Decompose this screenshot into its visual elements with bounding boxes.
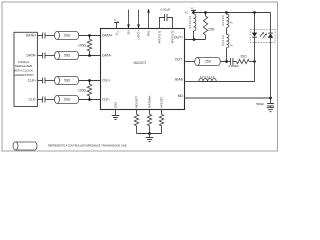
svg-text:20Ω: 20Ω <box>241 55 248 59</box>
IC U1 MAX3273 laser driver <box>101 29 185 110</box>
svg-text:DATA+: DATA+ <box>26 34 37 38</box>
inductor L1 LP ferrite bead at OUT+ <box>185 10 196 39</box>
resistor R3 MODSET set resistor <box>134 110 138 134</box>
wire bead to laser cathode <box>216 81 254 83</box>
capacitor C6 0.068uF damping <box>228 58 239 68</box>
svg-text:25Ω: 25Ω <box>205 60 212 64</box>
wire OUT- to 25ohm line <box>185 61 195 63</box>
node EN input arrow <box>127 10 130 29</box>
transmission line 50ohm row 3 <box>55 77 79 85</box>
photodiode D2 monitor <box>268 33 273 38</box>
svg-text:50Ω: 50Ω <box>64 79 71 83</box>
laser diode package (dashed) <box>250 29 275 42</box>
svg-text:GND: GND <box>114 102 118 108</box>
power VCC supply right <box>191 6 197 12</box>
ground below set resistors <box>146 134 154 142</box>
svg-text:100Ω: 100Ω <box>78 88 87 92</box>
svg-text:CLK-: CLK- <box>28 98 36 102</box>
capacitor C1 series coupling <box>43 33 45 39</box>
node rail junction at bead branch <box>225 11 228 14</box>
wire serializer to coupling cap row 3 <box>37 80 42 82</box>
wire set-resistor common rail <box>137 133 162 135</box>
inductor L4 ferrite bead bias <box>199 76 217 81</box>
capacitor C7 500pF MD bypass <box>256 98 274 106</box>
resistor R7 20ohm damping <box>233 55 255 64</box>
laser diode D1 <box>252 33 257 38</box>
wire laser anode from rail <box>254 13 256 33</box>
svg-text:APCSET: APCSET <box>160 96 164 107</box>
wire 50ohm line to MAX3273 row 1 <box>79 35 101 37</box>
svg-text:OUT+: OUT+ <box>174 36 183 40</box>
svg-text:BIAS: BIAS <box>175 78 183 82</box>
wire between beads <box>226 28 228 35</box>
svg-text:EN: EN <box>127 31 131 35</box>
resistor R4 BIASMAX set resistor <box>147 110 151 134</box>
svg-text:100Ω: 100Ω <box>78 43 87 47</box>
svg-text:2.5Gbps: 2.5Gbps <box>18 60 30 64</box>
figure border frame <box>2 2 278 151</box>
resistor R1 100ohm data termination <box>78 34 92 57</box>
wire cap to 50ohm line row 2 <box>45 55 55 57</box>
transmission line 50ohm row 1 <box>55 32 79 40</box>
svg-text:0.068μF: 0.068μF <box>228 64 239 68</box>
wire serializer to coupling cap row 2 <box>37 55 42 57</box>
transmission line 25ohm OUT- <box>195 58 221 66</box>
wire laser cathode to bias return <box>254 62 256 82</box>
svg-text:50Ω: 50Ω <box>64 54 71 58</box>
svg-text:FAIL: FAIL <box>147 30 151 36</box>
svg-text:25Ω: 25Ω <box>208 28 215 32</box>
node rail junction at 25ohm <box>204 11 207 14</box>
svg-text:50Ω: 50Ω <box>64 34 71 38</box>
transmission line 50ohm row 2 <box>55 52 79 60</box>
svg-text:500pF: 500pF <box>256 102 264 106</box>
wire BIAS pin to bead <box>185 81 199 83</box>
ground at MD bypass <box>267 106 275 112</box>
svg-text:GENERATION: GENERATION <box>14 73 34 77</box>
wire MD pin to photodiode <box>185 97 271 99</box>
wire OUT+ to pull-up node <box>185 39 206 41</box>
svg-text:DATA+: DATA+ <box>102 34 113 38</box>
wire serializer to coupling cap row 4 <box>37 99 42 101</box>
svg-text:LATCH: LATCH <box>137 31 141 40</box>
wire cap to 50ohm line row 4 <box>45 99 55 101</box>
wire photodiode cathode to rail <box>270 13 272 34</box>
inductor L3 LP ferrite bead lower <box>222 34 233 48</box>
wire 25ohm line to node <box>220 61 230 63</box>
wire cap to 50ohm line row 1 <box>45 35 55 37</box>
serializer block U2 <box>14 32 38 106</box>
wire serializer to coupling cap row 1 <box>37 35 42 37</box>
resistor R5 APCSET set resistor <box>159 110 163 134</box>
wire 50ohm line to MAX3273 row 2 <box>79 55 101 57</box>
ground at IC GND pin <box>112 110 120 120</box>
resistor R2 100ohm clock termination <box>78 79 92 101</box>
resistor R6 25ohm OUT+ pull-up <box>203 13 215 40</box>
svg-text:APCFILT1: APCFILT1 <box>158 30 162 43</box>
wire photodiode anode down to MD <box>270 38 272 98</box>
legend transmission line symbol <box>13 142 37 150</box>
node set resistor junction <box>148 132 151 135</box>
inductor L2 LP ferrite bead upper <box>222 13 233 28</box>
wire bead to OUT- node <box>226 48 228 62</box>
svg-text:0.01μF: 0.01μF <box>161 7 171 11</box>
wire 50ohm line to MAX3273 row 4 <box>79 99 101 101</box>
svg-text:DATA-: DATA- <box>102 54 112 58</box>
svg-text:BIASMAX: BIASMAX <box>148 95 152 108</box>
transmission line 50ohm row 4 <box>55 96 79 104</box>
wire laser cathode down <box>254 37 256 61</box>
node LATCH input arrow <box>137 10 140 29</box>
light emission arrows <box>260 32 267 38</box>
node laser cathode junction <box>253 60 256 63</box>
svg-text:50Ω: 50Ω <box>64 98 71 102</box>
svg-text:SERIALIZER: SERIALIZER <box>15 64 33 68</box>
node MD junction <box>269 97 272 100</box>
svg-text:MODSET: MODSET <box>135 96 139 108</box>
wire 50ohm line to MAX3273 row 3 <box>79 80 101 82</box>
node FAIL output arrow <box>147 9 150 29</box>
svg-text:MD: MD <box>178 94 184 98</box>
svg-text:DATA-: DATA- <box>27 54 37 58</box>
power VCC supply at IC pin <box>114 18 120 28</box>
node rail junction at laser anode <box>253 11 256 14</box>
capacitor C3 series coupling <box>43 78 45 84</box>
wire VCC rail <box>194 12 271 14</box>
node OUT+ junction <box>193 38 196 41</box>
node rail junction at LP <box>192 11 195 14</box>
capacitor C2 series coupling <box>43 53 45 59</box>
svg-text:CLK+: CLK+ <box>28 79 37 83</box>
node C OUT- junction <box>225 60 228 63</box>
svg-text:REPRESENTS A CONTROLLED-IMPEDA: REPRESENTS A CONTROLLED-IMPEDANCE TRANSM… <box>48 144 127 148</box>
capacitor C5 0.01uF APC filter <box>160 7 173 28</box>
svg-text:APCFILT2: APCFILT2 <box>171 30 175 43</box>
wire cap to 50ohm line row 3 <box>45 80 55 82</box>
svg-text:WITH CLOCK: WITH CLOCK <box>14 69 33 73</box>
svg-text:CLK+: CLK+ <box>102 79 111 83</box>
svg-text:MAX3273: MAX3273 <box>134 60 147 65</box>
capacitor C4 series coupling <box>43 97 45 103</box>
svg-text:CLK-: CLK- <box>102 98 110 102</box>
svg-text:OUT-: OUT- <box>175 58 183 62</box>
